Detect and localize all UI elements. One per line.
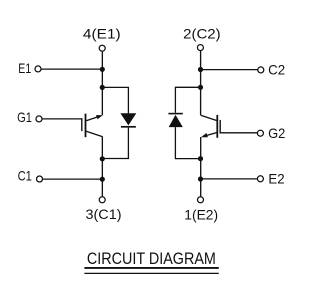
diode D1 cathode bar [121, 126, 136, 128]
title underline 2 [84, 272, 218, 274]
terminal 2(C2) circle [197, 45, 203, 51]
wire C2 to right rail [201, 69, 258, 71]
transistor Q2 emitter diagonal [203, 133, 216, 137]
wire left rail upper [101, 52, 103, 116]
terminal E2 circle [257, 176, 263, 182]
junction C2/rail [198, 67, 203, 72]
transistor Q2 emitter arrowhead [201, 133, 208, 137]
junction right diode top [198, 85, 203, 90]
wire right diode branch bottom [175, 127, 200, 159]
wire E2 to right rail [201, 178, 258, 180]
svg-text:C2: C2 [268, 63, 285, 78]
junction E1/rail [100, 67, 105, 72]
svg-text:C1: C1 [18, 169, 32, 184]
diode D2 [169, 115, 183, 127]
wire E1 to left rail [41, 68, 102, 70]
terminal G1 circle [36, 116, 42, 122]
wire right diode branch top [175, 87, 200, 113]
terminal C2 circle [258, 67, 264, 73]
terminal G2 circle [257, 130, 263, 136]
wire C1 to left rail [43, 178, 102, 180]
svg-text:2(C2): 2(C2) [183, 27, 221, 42]
transistor Q1 emitter arrowhead [96, 115, 103, 119]
terminal 3(C1) circle [99, 197, 105, 203]
transistor Q1 gate bar [81, 118, 83, 131]
junction E2/rail [198, 176, 203, 181]
svg-text:CIRCUIT DIAGRAM: CIRCUIT DIAGRAM [87, 249, 216, 268]
svg-text:1(E2): 1(E2) [184, 208, 218, 223]
wire left rail lower [101, 136, 103, 196]
terminal 1(E2) circle [198, 197, 204, 203]
svg-text:G2: G2 [268, 126, 285, 141]
transistor Q1 collector diagonal [86, 131, 102, 136]
diode D1 [120, 113, 136, 125]
svg-text:E2: E2 [268, 172, 284, 187]
wire left diode branch top [102, 87, 128, 113]
junction left diode top [100, 85, 105, 90]
transistor Q2 collector diagonal [201, 115, 217, 120]
terminal 4(E1) circle [99, 45, 105, 51]
wire G2 gate lead [220, 132, 258, 134]
terminal C1 circle [37, 176, 43, 182]
wire right rail lower [200, 137, 202, 196]
svg-text:G1: G1 [17, 110, 32, 125]
junction left diode bottom [100, 156, 105, 161]
junction C1/rail [100, 177, 105, 182]
wire right rail upper [200, 51, 202, 115]
wire G1 gate lead [42, 118, 82, 120]
transistor Q1 channel bar [85, 114, 87, 138]
wire left diode branch bottom [102, 128, 128, 159]
svg-text:4(E1): 4(E1) [83, 27, 121, 42]
title underline 1 [84, 267, 218, 269]
transistor Q2 gate bar [219, 120, 221, 134]
svg-text:E1: E1 [18, 61, 31, 76]
junction right diode bottom [198, 156, 203, 161]
terminal E1 circle [35, 66, 41, 72]
diode D2 cathode bar [168, 113, 182, 115]
svg-text:3(C1): 3(C1) [86, 207, 122, 222]
transistor Q1 emitter diagonal [86, 116, 100, 121]
transistor Q2 channel bar [216, 115, 218, 138]
